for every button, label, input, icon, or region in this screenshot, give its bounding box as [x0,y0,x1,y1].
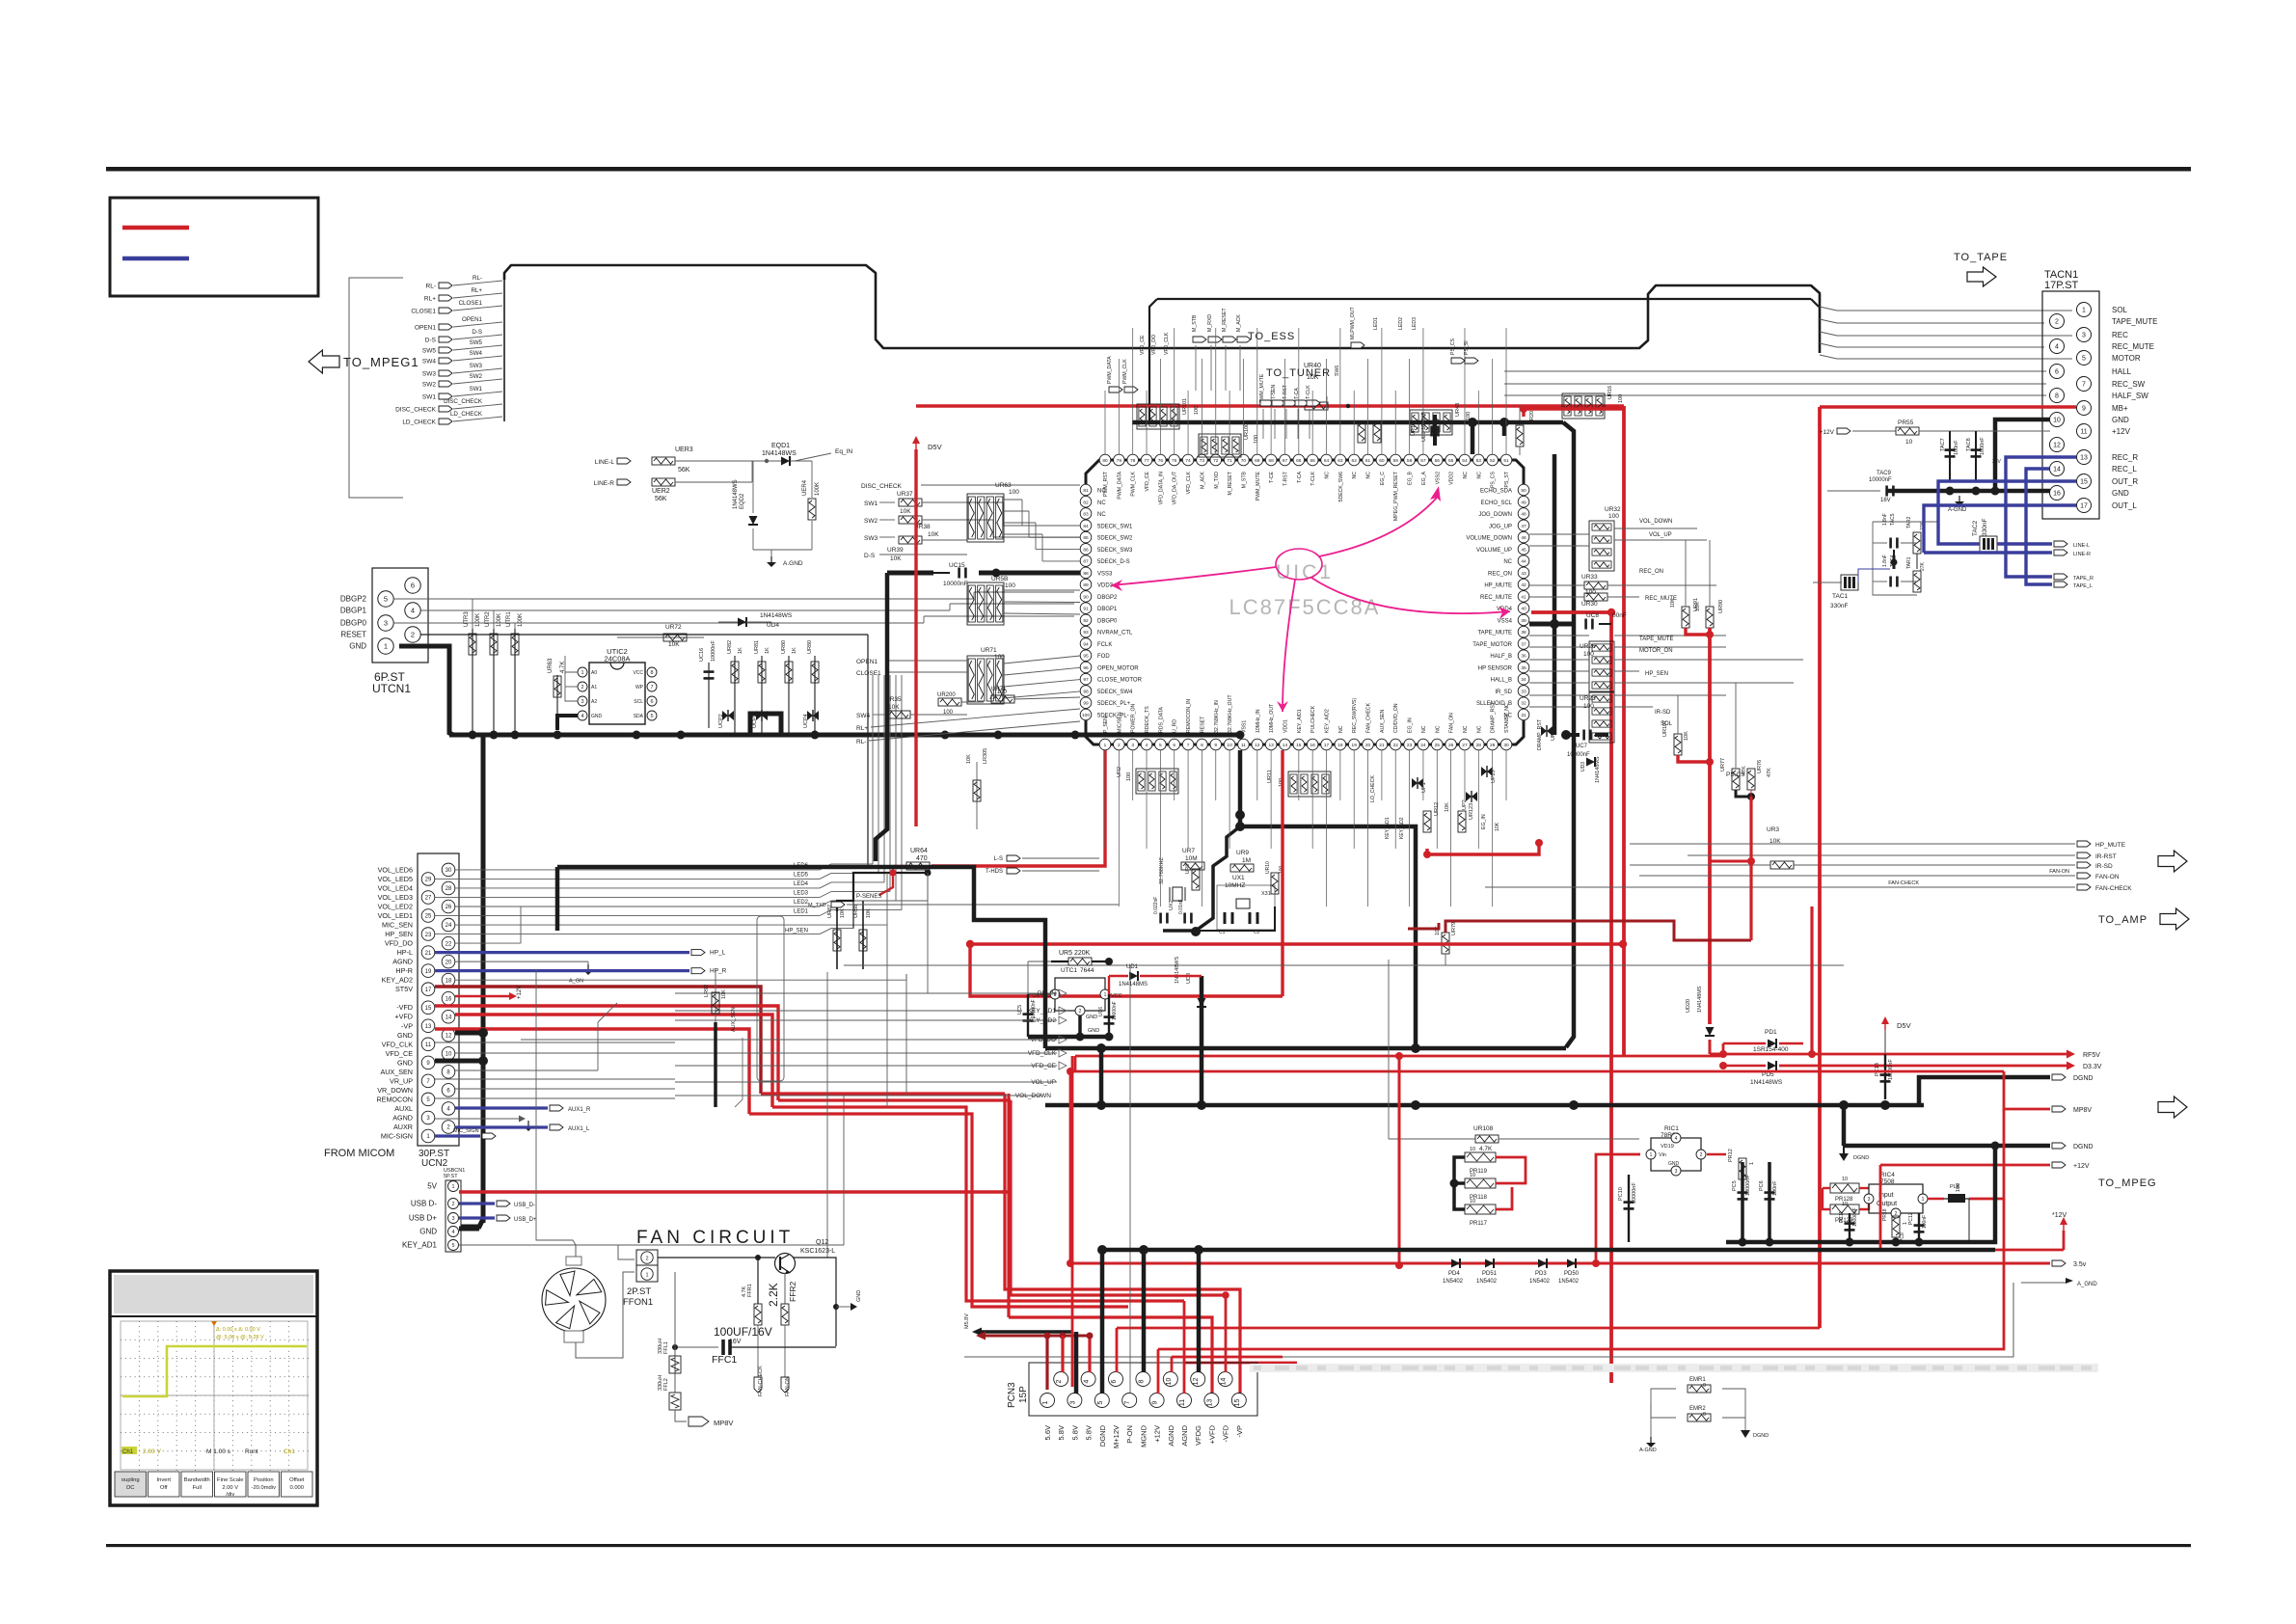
svg-text:60: 60 [1379,458,1385,464]
wire top pin lead [1422,328,1424,454]
connector UCN2 pin 14 +VFD [442,1010,455,1023]
connector UIC1 right pin 31 NC [1518,709,1529,720]
connector UIC1 bottom pin 19 REC_SW(RVS) [1348,739,1360,750]
svg-text:VOL_LED4: VOL_LED4 [378,883,413,892]
svg-text:VOLUME_DOWN: VOLUME_DOWN [1466,536,1512,542]
wire VSS1 thick [1240,750,1416,1048]
svg-text:47K: 47K [1767,768,1772,777]
wire +12V thin [2025,430,2050,432]
svg-text:56K: 56K [655,496,667,502]
svg-text:36: 36 [1521,654,1526,660]
svg-text:2: 2 [1079,1009,1082,1015]
wire red VDD1 [1281,750,1283,996]
capacitor PC12 100nF [1918,1213,1920,1242]
connector TACN1 pin 3 REC [2077,328,2092,342]
svg-text:UR43: UR43 [1455,403,1461,417]
svg-text:1N4148WS: 1N4148WS [1750,1079,1783,1086]
svg-text:UR90: UR90 [1718,600,1724,613]
svg-text:12: 12 [1255,743,1260,748]
connector PCN3 pin 14 -VFD [1218,1372,1232,1387]
svg-text:VFD_CE: VFD_CE [1031,1063,1056,1069]
connector UIC1 bottom pin 26 FAN_ON [1445,739,1457,750]
svg-text:100K: 100K [497,613,502,627]
svg-text:LINE-L: LINE-L [595,459,615,466]
connector UIC1 bottom pin 5 RDS_DATA [1155,739,1167,750]
svg-text:1M: 1M [1242,857,1251,864]
wire red RF5V [1723,1043,2069,1054]
svg-text:20: 20 [446,960,452,965]
connector UIC1 bottom pin 28 NC [1473,739,1485,750]
node M stub [1193,337,1206,342]
svg-text:VOL_LED3: VOL_LED3 [378,893,413,902]
svg-text:OPEN1: OPEN1 [856,659,878,665]
wire magenta arrow to VDD3 [1111,567,1276,585]
svg-text:REC_R: REC_R [2112,453,2138,462]
svg-text:3: 3 [1069,1400,1076,1404]
connector UIC1 top pin 55 VDD2 [1445,454,1457,466]
svg-text:GND: GND [397,1031,413,1040]
wire red VDD loop [970,944,1283,996]
wire TACN1 feed [1820,319,1837,323]
svg-text:89: 89 [1083,582,1089,588]
svg-text:4: 4 [451,1230,454,1235]
wire TACN1 thin feed [1504,370,2046,372]
wire top pin lead [1270,391,1272,454]
svg-text:A.GND: A.GND [783,560,803,567]
wire top pin lead [1311,391,1313,454]
resistor UR7 10M [1181,862,1204,870]
wire top pin lead [1298,328,1300,454]
node LINE-R [617,479,631,485]
svg-text:FAN CIRCUIT: FAN CIRCUIT [636,1228,794,1248]
capacitor PC13 10000nF [1884,1054,1886,1099]
wire emr loop [1651,1389,1676,1418]
capacitor TAC7 100nF [1949,431,1951,482]
svg-text:31: 31 [1521,713,1526,718]
wire pcn7 thin [1129,965,1131,1394]
wire thick UCN2toIC [555,867,560,931]
wire red pcn row5 [1158,1199,2004,1349]
resistor group mid [1288,771,1331,797]
wire flags lines [675,992,1057,994]
svg-text:UR7: UR7 [1182,848,1195,854]
wire bottom thick join [1726,1240,1969,1245]
svg-text:63: 63 [1337,458,1343,464]
svg-text:8: 8 [1201,743,1203,748]
svg-text:85: 85 [1083,535,1089,541]
svg-text:UR32: UR32 [1605,506,1621,513]
svg-text:330uH: 330uH [658,1339,663,1354]
svg-text:24: 24 [446,923,452,929]
svg-text:5.8V: 5.8V [1070,1425,1079,1440]
svg-text:SW1: SW1 [864,501,878,507]
svg-text:IR-SD: IR-SD [2095,863,2113,870]
svg-text:VFD_DATA_IN: VFD_DATA_IN [1158,472,1164,505]
svg-text:JOG_UP: JOG_UP [1489,524,1512,529]
svg-text:7: 7 [650,685,653,690]
svg-text:P-SENES: P-SENES [856,894,881,900]
svg-text:5DECK_D-S: 5DECK_D-S [1097,559,1130,565]
svg-text:UD20: UD20 [1686,999,1691,1013]
diode UCP3 [756,710,768,721]
svg-text:46: 46 [1521,535,1526,541]
resistor UR37 10K [899,499,922,506]
connector UTIC2 pin 3 [578,696,587,706]
svg-text:SW5: SW5 [470,339,483,346]
resistor PR119 [1465,1152,1496,1162]
svg-text:RESET: RESET [1200,716,1205,733]
svg-text:DBGP2: DBGP2 [1097,595,1118,601]
wire HP-L blue [435,951,689,954]
svg-text:1: 1 [1650,1152,1653,1158]
wire fan outer lead [576,1245,635,1259]
wire rc net [1873,522,1917,595]
wire motor wires [1004,680,1080,687]
svg-text:HALL: HALL [2112,367,2132,376]
connector TACN1 pin 16 GND [2050,486,2065,501]
wire thick gnd joint [1887,489,1995,494]
svg-text:4: 4 [1084,1379,1091,1383]
connector PCN3 pin 7 P-ON [1122,1394,1137,1408]
wire thick DGND bus [1102,1248,1995,1253]
wire bottom pin lead [1229,750,1230,849]
svg-text:VFD_CLK: VFD_CLK [382,1040,414,1048]
svg-text:NC: NC [1338,725,1344,733]
wire GND12 thick [455,1031,483,1036]
svg-text:MPEG_PWM_RESET: MPEG_PWM_RESET [1393,471,1399,521]
svg-text:10MHz_OUT: 10MHz_OUT [1269,703,1275,733]
svg-text:DBGP2: DBGP2 [340,595,367,604]
capacitor TAC2 330nF [1980,536,1997,552]
svg-text:VSS1: VSS1 [1241,720,1247,733]
node FAN-ON stub [781,1377,789,1393]
wire thick stair2 [1044,914,1046,920]
svg-text:SW4: SW4 [422,359,436,365]
svg-text:UTR2: UTR2 [485,611,491,627]
diode PD50 1N5402 [1567,1259,1576,1268]
svg-text:13: 13 [1206,1399,1213,1407]
svg-text:DBGP1: DBGP1 [340,607,367,615]
resistor EMR2 0 [1688,1414,1711,1421]
svg-text:RDECK_TS: RDECK_TS [1145,706,1150,733]
connector UIC1 right pin 36 HALF_B [1518,650,1529,662]
svg-text:CLOSE_MOTOR: CLOSE_MOTOR [1097,678,1143,684]
svg-text:10: 10 [1166,1378,1173,1386]
svg-text:Offset: Offset [289,1477,305,1483]
connector UIC1 top pin 56 VSS2 [1431,454,1443,466]
wire red diode rail 3.5v [1070,1262,2050,1265]
resistor UR3 10K [1770,861,1794,869]
connector UIC1 bottom pin 4 RDECK_TS [1141,739,1152,750]
svg-text:Ch1: Ch1 [284,1448,295,1455]
resistor UR40 10K [1305,402,1328,410]
svg-text:MOTOR: MOTOR [2112,354,2141,363]
capacitor UXC1 0.022nF [1159,913,1162,924]
svg-text:EG_A: EG_A [1421,471,1427,484]
svg-text:VSS3: VSS3 [1097,571,1113,577]
svg-text:15P: 15P [1018,1386,1029,1403]
svg-text:FROM MICOM: FROM MICOM [324,1148,394,1159]
wire gray loop box [757,916,784,1081]
resistor UTR3 100K [472,629,473,735]
svg-text:SW2: SW2 [470,373,483,380]
svg-text:Fine Scale: Fine Scale [217,1477,243,1483]
wire red mid 979 [970,942,1623,945]
svg-text:UR33: UR33 [1581,574,1598,581]
svg-text:NC: NC [1503,559,1512,565]
resistor UR76 47K [1747,769,1755,790]
connector UCN2 pin 22 VFD_DO [442,936,455,950]
svg-text:1N5402: 1N5402 [1558,1279,1580,1285]
connector UIC1 right pin 43 REC_ON [1518,567,1529,579]
svg-text:17: 17 [1324,743,1330,748]
op-amp UTIC2 24C08A box [589,663,645,724]
svg-text:10K: 10K [1695,602,1701,611]
wire thick mid rail [1045,1103,1924,1108]
wire bottom pin lead [1422,750,1424,800]
svg-text:KEY_AD2: KEY_AD2 [382,976,413,985]
wire motor wires [1004,691,1080,698]
wire pcn5 black thick [1100,1250,1105,1394]
connector UIC1 right pin 42 HP_MUTE [1518,579,1529,590]
resistor UR8 [1192,869,1200,890]
svg-text:FFC1: FFC1 [712,1354,737,1366]
svg-text:23: 23 [1407,743,1413,748]
svg-text:KEY_AD1: KEY_AD1 [1385,817,1391,839]
wire -VP red13 [435,1029,749,1114]
capacitor UC6 10000nF [1108,994,1110,1037]
svg-text:/div: /div [226,1492,234,1498]
svg-text:VFD_CE: VFD_CE [1145,471,1150,491]
svg-text:RIC4: RIC4 [1880,1172,1895,1178]
svg-text:FAN-CHECK: FAN-CHECK [1888,880,1919,886]
svg-text:330uH: 330uH [658,1375,663,1391]
op-amp UTC1 7644 [1055,978,1105,1011]
svg-text:97: 97 [1083,677,1089,683]
connector UIC1 right pin 49 ECHO_SCL [1518,496,1529,507]
svg-text:2.00 V: 2.00 V [222,1485,238,1491]
svg-text:TAPE_R: TAPE_R [2073,576,2093,582]
svg-text:100: 100 [1608,513,1619,520]
svg-text:M_STB: M_STB [1192,314,1198,332]
svg-text:+12V: +12V [2073,1163,2090,1170]
svg-text:A0: A0 [591,670,597,676]
wire bottom pin lead [1477,750,1479,849]
svg-text:+12V: +12V [517,986,523,999]
svg-text:20: 20 [1365,743,1371,748]
connector UTCN1 pin 2 [405,627,420,642]
wire red MP8V [2004,1071,2050,1109]
svg-text:FCLK: FCLK [1097,642,1112,648]
connector PCN3 pin 9 +12V [1149,1394,1164,1408]
svg-text:SW2: SW2 [422,382,436,389]
wire pullup top [837,873,928,911]
svg-text:D3.3V: D3.3V [2083,1064,2102,1070]
wire D5V drop [1884,1030,1886,1054]
connector UIC1 top pin 70 M_STB [1238,454,1250,466]
svg-text:UER4: UER4 [802,479,808,496]
svg-text:37: 37 [1521,641,1526,647]
wire HP-R blue [435,969,689,972]
wire top pin lead [1118,359,1120,454]
wire dbgp wires [1004,601,1080,604]
svg-text:REC_ON: REC_ON [1639,569,1663,575]
capacitor FFC1 100UF [675,1346,718,1348]
scope header divider [110,1315,317,1317]
resistor UR71b 100 [991,695,1014,703]
connector UIC1 left pin 85 5DECK_SW2 [1080,531,1092,543]
connector UIC1 bottom pin 6 U_RD [1169,739,1180,750]
svg-text:REC_SW(RVS): REC_SW(RVS) [1352,698,1358,733]
svg-text:OUT_L: OUT_L [2112,501,2137,510]
svg-text:LED2: LED2 [794,900,809,906]
wire red from UE9 [1524,407,1624,410]
svg-text:FAN_ON: FAN_ON [1449,713,1455,733]
wire bottom pin lead [1118,750,1120,907]
wire long thin [459,940,1053,942]
svg-text:10K: 10K [966,754,972,764]
resistor UER3 56K [652,457,675,465]
junction [469,731,477,740]
wire dbgp wires [1004,613,1080,614]
svg-text:ECHO_SDA: ECHO_SDA [1480,489,1512,495]
svg-text:4: 4 [2055,344,2059,351]
svg-text:VFD_DO: VFD_DO [1151,335,1157,355]
svg-text:19: 19 [1352,743,1358,748]
svg-text:KEY_AD1: KEY_AD1 [1028,1008,1057,1015]
svg-text:100: 100 [1585,589,1596,596]
svg-text:PWM_DATA: PWM_DATA [1117,471,1122,499]
svg-text:5: 5 [1097,1400,1104,1404]
svg-text:TAPE_MUTE: TAPE_MUTE [2112,317,2157,326]
svg-text:81: 81 [1083,488,1089,494]
svg-text:10: 10 [1905,439,1913,446]
wire TACN1 thin feed [1504,394,2046,396]
diode UD3 1N4148MS [1586,758,1595,767]
svg-text:VCC: VCC [1111,993,1122,999]
wire AUX_SEN [455,1069,598,1071]
svg-text:10K: 10K [866,908,872,918]
wire GND corner bottom [461,1219,483,1227]
svg-text:VD19: VD19 [1661,1144,1674,1150]
wire top pin lead [1367,359,1369,454]
svg-text:GND: GND [591,714,603,719]
connector UCN2 pin 25 VOL_LED1 [421,909,435,923]
svg-text:KSC1623-L: KSC1623-L [800,1248,835,1255]
connector UTCN1 pin 6 [405,578,420,593]
svg-text:MIC-SIGN: MIC-SIGN [381,1132,413,1141]
svg-text:UR5 220K: UR5 220K [1059,950,1091,957]
svg-text:-VFD: -VFD [396,1003,413,1012]
diode PD51 1N5402 [1485,1259,1494,1268]
svg-text:TAC8: TAC8 [1966,438,1972,451]
wire eq gnd [753,549,812,551]
wire utc1 gnd [1078,1015,1082,1037]
svg-text:LED1: LED1 [1373,317,1379,330]
wire VOL_LED1 [435,915,820,917]
svg-text:21: 21 [1379,743,1385,748]
connector UIC1 left pin 91 DBGP1 [1080,603,1092,614]
svg-text:UC7: UC7 [1576,744,1588,749]
svg-text:9: 9 [1214,743,1217,748]
svg-text:SW1: SW1 [470,386,483,392]
svg-text:16V: 16V [1880,498,1891,503]
svg-text:98: 98 [1083,689,1089,694]
connector UIC1 top pin 63 5DECK_SW6 [1335,454,1346,466]
wire HP_MUTE line [1630,843,2075,845]
svg-text:55: 55 [1448,458,1454,464]
wire M12 black [1116,1105,1118,1329]
svg-text:10: 10 [1842,1177,1848,1182]
wire bottom pin lead [1298,750,1300,800]
svg-text:5: 5 [451,1243,454,1249]
connector UIC1 top pin 59 MPEG_PWM_RESET [1390,454,1401,466]
connector UIC1 top pin 58 EG_B [1404,454,1416,466]
connector UIC1 right pin 37 TAPE_MOTOR [1518,638,1529,650]
connector UIC1 top pin 68 T-CE [1265,454,1277,466]
wire bottom pin lead [1367,750,1369,907]
connector UIC1 bottom pin 21 AUX_SEN [1376,739,1388,750]
svg-text:56: 56 [1435,458,1441,464]
svg-text:M_STB: M_STB [1241,471,1247,488]
connector UTIC2 pin 2 [578,682,587,691]
wire top pin lead [1201,359,1202,454]
node P-SENES flag [879,866,893,895]
wire red right vert3 [1708,628,1712,1024]
connector USBCN1 pin 4 GND [448,1227,459,1237]
svg-text:NC: NC [1352,472,1358,479]
junction [677,731,686,740]
connector UIC1 left pin 81 NC [1080,484,1092,496]
svg-text:100K: 100K [475,613,481,627]
svg-text:GND: GND [397,1058,413,1067]
legend red wire sample [122,226,189,230]
svg-text:1: 1 [2082,308,2086,314]
svg-text:VR_UP: VR_UP [390,1076,413,1085]
svg-text:GND: GND [1088,1028,1099,1034]
wire -VFD red15 [435,1006,778,1100]
svg-text:4.7K: 4.7K [1479,1146,1493,1152]
svg-text:1000nF: 1000nF [1980,437,1985,455]
svg-text:REMOCON_IN: REMOCON_IN [1186,699,1192,733]
capacitor TAC8 1000nF [1975,431,1977,482]
connector UIC1 bottom pin 15 KEY_A/D1 [1293,739,1305,750]
svg-text:+VFD: +VFD [1207,1424,1216,1444]
svg-text:33: 33 [1521,689,1526,694]
svg-text:VOL_LED6: VOL_LED6 [378,865,413,874]
wire VSS3 left [887,571,933,576]
wire blue REC_L [2026,469,2052,584]
svg-text:SW4: SW4 [856,713,870,719]
svg-text:UX1: UX1 [1232,875,1245,881]
wire lr92 thick [714,1022,717,1107]
svg-text:Full: Full [193,1485,202,1491]
svg-text:15: 15 [2080,479,2088,486]
svg-text:IR-RST: IR-RST [2095,853,2117,860]
capacitor UC16 10000nF [708,663,710,728]
svg-text:POWER_ON: POWER_ON [1131,703,1137,733]
svg-text:13: 13 [2080,455,2088,462]
resistor EMR1 0 [1688,1385,1711,1393]
svg-text:2: 2 [451,1202,454,1207]
node T stub [1295,400,1309,406]
capacitor TAC9 10000nF 16V [1885,486,1888,497]
wire top pin lead [1492,359,1494,454]
node D5V arrow2 [1884,1022,1886,1030]
svg-text:84: 84 [1083,524,1089,529]
svg-text:5.6V: 5.6V [1043,1425,1052,1440]
svg-text:EG_B: EG_B [1408,471,1414,484]
